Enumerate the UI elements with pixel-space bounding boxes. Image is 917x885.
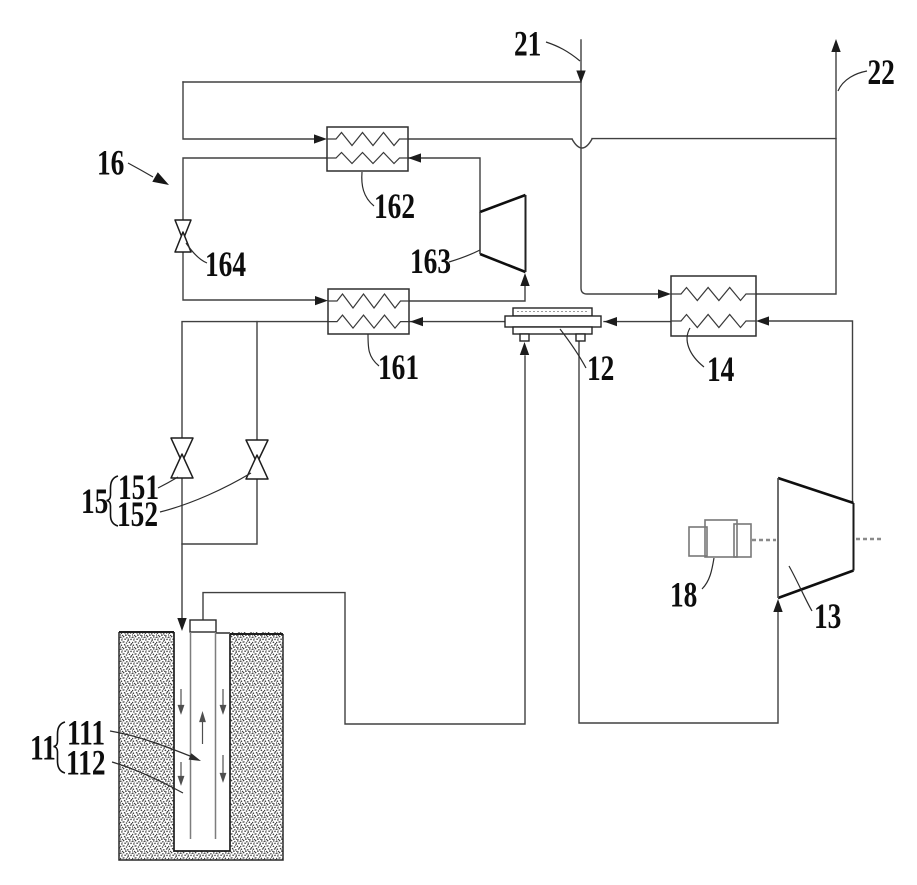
pointer arrowhead for 111	[189, 753, 201, 761]
arrow: into HX161 bottom	[410, 317, 423, 326]
motor 18	[689, 520, 776, 557]
wire: device 12 right foot down and to turbine 13 inlet	[579, 341, 778, 723]
arrow: into HX14 bottom	[756, 316, 769, 325]
svg-text:162: 162	[374, 186, 415, 225]
shaft of turbine 13	[856, 538, 882, 540]
leader 18	[702, 558, 714, 589]
turbine 13	[778, 478, 882, 598]
wire: branch down to valve 152	[256, 322, 258, 440]
brace for group 11	[54, 722, 66, 773]
arrow: inlet 21 down	[576, 71, 585, 84]
leader 161	[368, 334, 379, 366]
wire: loop16 return from HX162 bottom to valve 164	[183, 158, 327, 221]
wire: top header line y=82	[183, 81, 581, 83]
leader 151	[158, 477, 178, 488]
turbine 163	[480, 195, 526, 272]
svg-text:164: 164	[205, 244, 246, 283]
svg-text:112: 112	[66, 743, 106, 782]
heat exchanger 161	[328, 289, 409, 334]
WELL	[119, 620, 283, 860]
arrow: into HX162 bottom	[408, 153, 421, 162]
leader 21	[546, 42, 580, 61]
wire: device 12 left side to HX161 bottom inlet	[410, 321, 505, 323]
arrow: from HX14 toward device 12	[604, 317, 617, 326]
ground block border	[119, 632, 283, 860]
wire: HX162 bottom inlet from turbine 163 top	[408, 158, 480, 212]
flow arrows inside well	[178, 689, 225, 784]
valve 164	[175, 220, 191, 252]
well casing 112 walls	[174, 632, 230, 851]
leader 13	[789, 566, 812, 611]
svg-text:21: 21	[514, 24, 541, 63]
heat exchanger 14	[671, 276, 756, 336]
svg-text:18: 18	[670, 575, 697, 614]
wire: turbine 13 exhaust up and into HX14 bottom	[768, 321, 853, 503]
wire: below valve 151 down to well inlet	[181, 478, 183, 620]
arrow: outlet 22 up	[831, 39, 840, 52]
arrow: into HX14 top	[658, 289, 671, 298]
arrow: into HX161 top	[315, 296, 328, 305]
leader 111	[110, 731, 195, 758]
wire: HX162 top outlet to riser (with hop over 21 line)	[408, 139, 836, 148]
svg-text:13: 13	[814, 596, 841, 635]
ground hatch block	[119, 632, 283, 860]
svg-text:16: 16	[97, 143, 124, 182]
wire: left drop from header into HX162 top channel	[183, 82, 315, 139]
ARROWS	[177, 39, 840, 631]
leader 164	[186, 243, 207, 263]
brace for group 15	[107, 476, 119, 526]
leader 22	[838, 71, 867, 91]
wire: HX161 bottom outlet to left drop	[182, 322, 328, 438]
ground surface right	[230, 633, 283, 635]
arrow: into well annulus	[177, 618, 186, 631]
svg-text:163: 163	[410, 241, 451, 280]
leader 14	[687, 328, 704, 367]
LEADER LINES	[110, 42, 867, 793]
PIPES	[182, 40, 853, 724]
leader 152	[160, 473, 251, 512]
wire: HX161 top outlet to turbine 163 bottom inlet	[409, 285, 525, 301]
arrow: into turbine 163	[520, 273, 529, 286]
casing interior (white)	[174, 632, 230, 851]
valve 151	[171, 438, 193, 478]
svg-text:161: 161	[378, 347, 419, 386]
wire: valve164 to HX161 top inlet	[183, 251, 316, 300]
wire: below valve 152 and merge line	[182, 479, 257, 544]
heat exchanger 162	[327, 127, 408, 171]
shaft motor to turbine	[752, 539, 776, 541]
svg-text:11: 11	[30, 728, 56, 767]
wire: well production pipe to riser right	[203, 356, 525, 724]
leader 112	[112, 762, 183, 793]
leader 16 pointer curve	[128, 163, 153, 177]
leader 162	[362, 172, 374, 206]
wire: stream 21 vertical inlet	[581, 40, 659, 294]
wire: HX14 bottom outlet to device 12 right side	[604, 321, 671, 323]
arrow: into HX162 top	[314, 134, 327, 143]
svg-text:12: 12	[587, 348, 614, 387]
valve 152	[246, 440, 268, 479]
svg-text:152: 152	[117, 494, 158, 533]
purification device 12	[505, 308, 601, 341]
arrow: into turbine 13 inlet	[773, 599, 782, 612]
svg-text:22: 22	[868, 52, 895, 91]
pointer arrowhead for 16	[152, 172, 169, 185]
leader 12	[560, 329, 586, 368]
svg-text:14: 14	[707, 349, 734, 388]
wire: riser to outlet 22	[756, 51, 836, 294]
leader 163	[449, 250, 480, 262]
inner pipe 111 stub above ground	[190, 620, 216, 632]
arrow: into device 12 left foot	[520, 342, 529, 355]
inner pipe 111 walls	[190, 632, 192, 839]
svg-text:15: 15	[81, 481, 108, 520]
ground surface left	[119, 631, 174, 633]
